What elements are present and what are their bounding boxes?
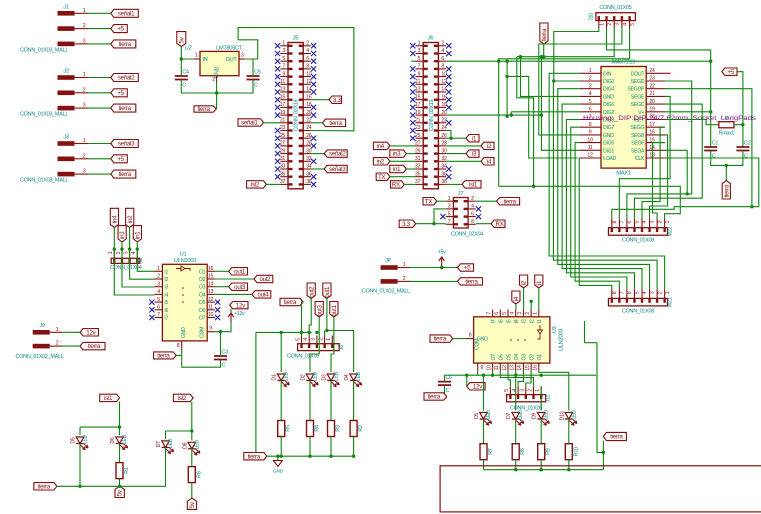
svg-text:4: 4 bbox=[589, 91, 592, 97]
wire U1 O1 to out1 bbox=[215, 270, 229, 272]
no-connect J5 pin 26 bbox=[311, 136, 316, 141]
MAX1 pin 13 lead bbox=[646, 157, 665, 159]
connector J6 pin 15 pad bbox=[424, 99, 428, 101]
wire J10 pin1 route bbox=[554, 28, 599, 81]
svg-text:8: 8 bbox=[589, 122, 592, 128]
no-connect U1 pin 12 bbox=[215, 300, 220, 305]
svg-text:JP: JP bbox=[385, 258, 391, 264]
wire stair A pin22 bbox=[612, 89, 752, 219]
U1 pin 15 lead bbox=[207, 278, 215, 280]
wire J1 pin 3 to label bbox=[88, 43, 111, 45]
connector J5 pin 14 lead bbox=[303, 91, 311, 93]
svg-text:CONN_01X05: CONN_01X05 bbox=[287, 354, 319, 360]
svg-text:isl2: isl2 bbox=[251, 182, 260, 189]
connector M22 pin 8 lead bbox=[611, 218, 613, 227]
label 12v at U3 bbox=[467, 383, 485, 391]
connector J5 pin 4 pad bbox=[299, 52, 303, 54]
ground GND symbol bbox=[273, 461, 282, 467]
MAX1 pin 21 lead bbox=[646, 95, 665, 97]
svg-text:23: 23 bbox=[415, 125, 421, 131]
connector J6 pin 34 lead bbox=[438, 168, 446, 170]
wire stair A CLK right bbox=[665, 158, 759, 207]
svg-text:C: C bbox=[222, 363, 226, 369]
connector J6 pin 25 lead bbox=[416, 137, 424, 139]
label out1 bbox=[229, 268, 248, 276]
junction DIG2 jog bbox=[510, 113, 513, 116]
no-connect J5 pin 14 bbox=[311, 89, 316, 94]
svg-text:isl1: isl1 bbox=[469, 182, 478, 189]
svg-text:5: 5 bbox=[635, 220, 641, 223]
connector J4 pin 4 pad bbox=[136, 259, 138, 263]
LED D4 bbox=[350, 374, 362, 387]
svg-text:2: 2 bbox=[306, 41, 309, 47]
wire J6 pin38 to isl1 bbox=[446, 183, 462, 185]
label +5 top right bbox=[722, 68, 737, 76]
svg-text:R4: R4 bbox=[315, 425, 321, 432]
svg-text:CONN_01X03_MALL: CONN_01X03_MALL bbox=[20, 112, 68, 118]
svg-text:4: 4 bbox=[441, 48, 444, 54]
U1 pin 2 lead bbox=[155, 278, 163, 280]
svg-text:J11: J11 bbox=[546, 395, 552, 403]
wire J6 pin24 jog to i1 net bbox=[446, 131, 451, 139]
svg-text:3: 3 bbox=[615, 23, 621, 26]
label isl1 bbox=[100, 394, 120, 402]
connector J5 pin 1 lead bbox=[280, 45, 288, 47]
connector J5 pin 34 pad bbox=[299, 168, 303, 170]
connector J8 body bbox=[298, 344, 340, 351]
junction tierra drop bbox=[542, 55, 545, 58]
connector J3 pin 2 pad bbox=[58, 157, 75, 162]
wire i4 to U3 pin4 bbox=[515, 304, 517, 310]
connector J5 pin 8 pad bbox=[299, 68, 303, 70]
wire bottom-left tierra rail bbox=[57, 485, 166, 487]
U1 pin 8 GND lead bbox=[181, 341, 183, 350]
svg-text:6: 6 bbox=[157, 305, 160, 311]
wire J8 top rail bbox=[256, 331, 312, 333]
capacitor C2 bbox=[736, 147, 749, 151]
svg-text:D3: D3 bbox=[322, 374, 328, 380]
resistor R10 bbox=[565, 444, 572, 460]
svg-text:8: 8 bbox=[612, 220, 618, 223]
LED D5 bbox=[76, 437, 88, 450]
connector J5 pin 11 pad bbox=[289, 83, 293, 85]
connector J6 pin 7 lead bbox=[416, 68, 424, 70]
connector J10 pin 3 lead bbox=[613, 21, 615, 29]
wire J6 pin30 to i3 bbox=[446, 153, 466, 155]
wire i2 to U3 pin3 bbox=[523, 288, 525, 310]
U1 pin 14 lead bbox=[207, 286, 215, 288]
svg-text:D10: D10 bbox=[559, 411, 565, 420]
wire J2 pin 2 to label bbox=[88, 92, 111, 94]
label tierra at J9 pin 2 bbox=[80, 342, 105, 350]
connector J5 pin 14 pad bbox=[299, 91, 303, 93]
no-connect J5 pin 4 bbox=[311, 51, 316, 56]
svg-text:+5v: +5v bbox=[438, 250, 446, 256]
connector J7 body bbox=[453, 198, 468, 229]
no-connect J7 pin 5 bbox=[440, 214, 445, 219]
connector M21 body bbox=[609, 298, 668, 306]
no-connect J6 pin 15 bbox=[410, 97, 415, 102]
label +5 at J2 pin 2 bbox=[111, 89, 128, 97]
connector J6 pin 32 lead bbox=[438, 160, 446, 162]
svg-text:6: 6 bbox=[441, 56, 444, 62]
wire J7 pin8 to RX bbox=[476, 223, 491, 225]
connector J10 pin 1 lead bbox=[598, 21, 600, 29]
svg-text:25: 25 bbox=[415, 133, 421, 139]
wire isl2 to J5 pin37 bbox=[266, 183, 280, 185]
connector J5 pin 9 pad bbox=[289, 75, 293, 77]
svg-text:CONN_01X02_MALL: CONN_01X02_MALL bbox=[362, 289, 410, 295]
label i2 at J6 pin28 bbox=[481, 142, 494, 150]
connector J4 pin 1 pad bbox=[113, 259, 115, 263]
connector J6 pin 35 lead bbox=[416, 176, 424, 178]
svg-text:3: 3 bbox=[448, 204, 451, 210]
wire ISET to Rmax1 bbox=[665, 120, 719, 125]
connector J10 pin 5 pad bbox=[628, 16, 630, 20]
no-connect J6 pin 19 bbox=[410, 113, 415, 118]
svg-text:4: 4 bbox=[303, 338, 309, 341]
no-connect J5 pin 13 bbox=[275, 89, 280, 94]
svg-text:señal2: señal2 bbox=[118, 75, 135, 82]
no-connect J6 pin 34 bbox=[446, 166, 451, 171]
svg-text:tierra: tierra bbox=[428, 394, 441, 401]
junction D1 branch bbox=[280, 331, 283, 334]
wire U3 pin10 into COM rail bbox=[492, 371, 494, 376]
svg-text:ULN2003: ULN2003 bbox=[174, 258, 196, 264]
connector J5 pin 27 lead bbox=[280, 145, 288, 147]
wire D8 to R6 bbox=[191, 449, 193, 467]
connector J7 pin 2 lead bbox=[468, 200, 476, 202]
resistor R7 bbox=[480, 444, 487, 460]
connector J5 pin 18 lead bbox=[303, 106, 311, 108]
svg-text:I1: I1 bbox=[164, 269, 168, 275]
no-connect J5 pin 33 bbox=[275, 166, 280, 171]
svg-text:9: 9 bbox=[282, 71, 285, 77]
junction D9col bbox=[540, 374, 543, 377]
label out4v (vertical) above J8 pin1 bbox=[330, 302, 338, 318]
label tierra at J5 pin22 bbox=[323, 119, 346, 127]
connector J6 pin 37 pad bbox=[424, 183, 428, 185]
svg-text:GND: GND bbox=[603, 94, 614, 100]
wire U3 pin12 to J11 pin5 bbox=[508, 371, 510, 387]
wire R2 to gnd rail bbox=[353, 437, 355, 457]
svg-text:4: 4 bbox=[306, 48, 309, 54]
svg-text:4: 4 bbox=[471, 204, 474, 210]
svg-text:3: 3 bbox=[650, 220, 656, 223]
MAX1 pin 24 lead bbox=[646, 72, 665, 74]
junction gnd rail at R2 bbox=[352, 455, 355, 458]
MAX1 pin 18 lead bbox=[646, 119, 665, 121]
label out2 (vertical) above J8 pin4 bbox=[307, 283, 315, 299]
junction pin14 tail bbox=[686, 192, 689, 195]
label tierra at U3 pin8 bbox=[430, 335, 453, 343]
wire MAX1 V+ to +5 column bbox=[665, 111, 711, 113]
resistor R9 bbox=[538, 444, 545, 460]
junction out1 branch bbox=[325, 329, 328, 332]
svg-text:2: 2 bbox=[116, 251, 122, 254]
svg-text:LED: LED bbox=[168, 438, 174, 448]
connector J5 pin 12 pad bbox=[299, 83, 303, 85]
wire R1 to 5v flag bbox=[119, 479, 121, 487]
svg-text:2: 2 bbox=[83, 153, 86, 159]
no-connect J6 pin 9 bbox=[410, 74, 415, 79]
svg-text:out3: out3 bbox=[316, 304, 323, 316]
wire J1 pin 1 to label bbox=[88, 12, 111, 14]
svg-text:SEGE: SEGE bbox=[631, 94, 645, 100]
wire C4 top lead bbox=[180, 59, 182, 76]
connector J6 pin 5 pad bbox=[424, 60, 428, 62]
svg-text:señal1: señal1 bbox=[241, 120, 258, 127]
connector J11 body bbox=[507, 395, 546, 402]
resistor R6 bbox=[188, 467, 195, 483]
LED D2 bbox=[306, 374, 318, 387]
svg-text:DIG1: DIG1 bbox=[603, 148, 614, 154]
svg-text:12v: 12v bbox=[236, 302, 246, 309]
connector J6 pin 35 pad bbox=[424, 176, 428, 178]
junction Rmax1 on +5 column bbox=[741, 123, 744, 126]
no-connect J6 pin 3 bbox=[410, 51, 415, 56]
no-connect J5 pin 29 bbox=[275, 151, 280, 156]
svg-text:37: 37 bbox=[415, 179, 421, 185]
no-connect J6 pin 21 bbox=[410, 120, 415, 125]
connector J6 pin 28 lead bbox=[438, 145, 446, 147]
junction J8 pin5 rail bbox=[300, 331, 303, 334]
svg-text:17: 17 bbox=[415, 102, 421, 108]
resistor R1 bbox=[116, 463, 123, 479]
U3 pin 2 lead bbox=[530, 310, 532, 317]
label tierra bottom left bbox=[34, 483, 57, 491]
connector J6 pin 9 lead bbox=[416, 76, 424, 78]
svg-text:+5: +5 bbox=[117, 26, 124, 33]
junction 3.3 branch bbox=[432, 222, 435, 225]
svg-text:O2: O2 bbox=[199, 277, 206, 283]
U3 pin 6 lead bbox=[499, 310, 501, 317]
svg-text:3: 3 bbox=[418, 48, 421, 54]
wire out3 through J8 pin3 to D2 bbox=[310, 317, 319, 372]
svg-text:16: 16 bbox=[533, 365, 539, 371]
connector J11 pin 3 lead bbox=[525, 386, 527, 394]
no-connect J5 pin 6 bbox=[311, 59, 316, 64]
no-connect J6 pin 17 bbox=[410, 105, 415, 110]
label 3.3 at J5 pin16 bbox=[329, 96, 342, 104]
connector J1 pin 3 lead bbox=[75, 43, 89, 45]
MAX1 pin 5 lead bbox=[580, 103, 601, 105]
svg-text:LED: LED bbox=[571, 410, 577, 420]
svg-text:out1: out1 bbox=[331, 304, 338, 316]
svg-text:tierra: tierra bbox=[465, 279, 478, 286]
svg-text:12: 12 bbox=[502, 365, 508, 371]
wire bundle B 1 MAX row 73.3 bbox=[549, 73, 665, 289]
wire R6 to 5v flag bbox=[191, 483, 193, 499]
svg-text:R7: R7 bbox=[488, 448, 494, 455]
connector J5 pin 9 lead bbox=[280, 76, 288, 78]
svg-text:35: 35 bbox=[415, 171, 421, 177]
svg-text:COM: COM bbox=[200, 327, 206, 338]
connector J5 pin 7 pad bbox=[289, 68, 293, 70]
svg-text:tierra: tierra bbox=[157, 353, 170, 360]
svg-text:3: 3 bbox=[589, 83, 592, 89]
svg-text:1: 1 bbox=[589, 68, 592, 74]
wire J3 pin 1 to label bbox=[88, 143, 111, 145]
svg-text:8: 8 bbox=[471, 219, 474, 225]
connector J5 pin 6 pad bbox=[299, 60, 303, 62]
connector J7 pin 4 lead bbox=[468, 208, 476, 210]
connector M22 pin 4 lead bbox=[641, 218, 643, 227]
connector J1 pin 1 lead bbox=[75, 12, 89, 14]
connector J6 pin 20 pad bbox=[434, 114, 438, 116]
svg-text:J8: J8 bbox=[339, 345, 345, 350]
svg-text:SEGF: SEGF bbox=[631, 141, 644, 147]
label tierra at center gnd rail bbox=[244, 453, 267, 461]
junction v541 bottom bbox=[540, 113, 543, 116]
connector J5 pin 20 pad bbox=[299, 114, 303, 116]
label senal3 at J5 pin34 bbox=[324, 165, 347, 173]
wire GND stub bbox=[277, 456, 279, 460]
connector M22 pin 3 lead bbox=[649, 218, 651, 227]
no-connect J5 pin 5 bbox=[275, 59, 280, 64]
U3 internal dots bbox=[510, 339, 526, 341]
svg-text:7: 7 bbox=[620, 291, 626, 294]
wire in4 to J6 pin27 bbox=[390, 145, 416, 147]
connector J11 pin 5 pad bbox=[509, 395, 511, 399]
svg-text:29: 29 bbox=[415, 148, 421, 154]
connector J5 pin 5 lead bbox=[280, 60, 288, 62]
svg-text:J4: J4 bbox=[139, 258, 145, 263]
connector J5 pin 3 pad bbox=[289, 52, 293, 54]
wire bundle B 2 MAX row 81 bbox=[553, 81, 657, 289]
no-connect J5 pin 35 bbox=[275, 174, 280, 179]
junction +5 col at V+ bbox=[709, 110, 712, 113]
svg-text:7: 7 bbox=[418, 64, 421, 70]
connector J8 pin 1 pad bbox=[331, 344, 333, 348]
svg-text:10: 10 bbox=[587, 137, 593, 143]
svg-text:tierra: tierra bbox=[88, 343, 101, 350]
wire +5 column to C1 bbox=[710, 50, 712, 147]
svg-text:1: 1 bbox=[157, 266, 160, 272]
svg-text:3: 3 bbox=[83, 38, 86, 44]
label tierra at JP pin 2 bbox=[458, 278, 483, 286]
no-connect U1 pin 6 bbox=[149, 307, 154, 312]
transistor-array U3 body bbox=[474, 317, 550, 363]
U1 pin 5 lead bbox=[155, 301, 163, 303]
connector J8 pin 1 lead bbox=[331, 336, 333, 344]
junction GND stub bbox=[276, 455, 279, 458]
connector J5 pin 29 pad bbox=[289, 152, 293, 154]
connector J2 pin 1 pad bbox=[58, 75, 75, 80]
connector M21 pin 6 pad bbox=[626, 299, 628, 303]
svg-text:23: 23 bbox=[280, 125, 286, 131]
svg-text:isl1: isl1 bbox=[104, 395, 113, 402]
wire tierra branch down bbox=[725, 165, 727, 180]
svg-text:16: 16 bbox=[208, 266, 214, 272]
junction gnd rail at R3 bbox=[329, 455, 332, 458]
connector J5 pin 33 lead bbox=[280, 168, 288, 170]
svg-text:7: 7 bbox=[620, 220, 626, 223]
wire D7 to R8 bbox=[515, 419, 517, 444]
connector M21 pin 2 pad bbox=[656, 299, 658, 303]
connector J5 pin 24 pad bbox=[299, 129, 303, 131]
svg-text:19: 19 bbox=[280, 110, 286, 116]
connector J6 pin 31 lead bbox=[416, 160, 424, 162]
U1 pin 13 lead bbox=[207, 293, 215, 295]
svg-text:I7: I7 bbox=[491, 319, 497, 323]
svg-text:15: 15 bbox=[415, 94, 421, 100]
connector J6 pin 16 pad bbox=[434, 99, 438, 101]
connector J2 pin 2 lead bbox=[75, 92, 89, 94]
wire JP pin 2 to label bbox=[410, 280, 458, 282]
connector J7 pin 1 lead bbox=[446, 200, 454, 202]
svg-text:2: 2 bbox=[83, 87, 86, 93]
svg-text:5: 5 bbox=[157, 297, 160, 303]
U3 pin 11 lead bbox=[499, 363, 501, 371]
wire +5 long line from J6 pin6 bbox=[446, 60, 711, 62]
label tierra at U1 pin8 bbox=[154, 352, 177, 360]
svg-text:COM: COM bbox=[475, 339, 481, 350]
svg-text:1: 1 bbox=[418, 41, 421, 47]
connector J6 pin 17 pad bbox=[424, 106, 428, 108]
wire tierra to U3 pin8 bbox=[453, 338, 466, 340]
junction J4 pin2 bbox=[120, 247, 123, 250]
connector J4 pin 3 lead bbox=[129, 249, 131, 258]
svg-text:tierra: tierra bbox=[329, 120, 342, 127]
connector J6 pin 18 pad bbox=[434, 106, 438, 108]
svg-text:2: 2 bbox=[157, 274, 160, 280]
svg-text:14: 14 bbox=[208, 281, 214, 287]
connector J6 pin 21 pad bbox=[424, 122, 428, 124]
wire tierra rail up branch bbox=[602, 441, 604, 470]
MAX1 pin 14 lead bbox=[646, 149, 665, 151]
svg-text:Rmax1: Rmax1 bbox=[719, 131, 735, 137]
svg-text:D1: D1 bbox=[272, 374, 278, 380]
wire C3 top lead bbox=[220, 332, 222, 356]
svg-text:C2: C2 bbox=[744, 141, 751, 147]
no-connect U1 pin 7 bbox=[149, 315, 154, 320]
wire stub end square at U3 pin2 bbox=[530, 300, 533, 303]
wire D6 to R1 bbox=[119, 444, 121, 463]
svg-text:12v: 12v bbox=[86, 329, 96, 336]
svg-text:DIG7: DIG7 bbox=[603, 125, 614, 131]
svg-text:R9: R9 bbox=[546, 448, 552, 455]
no-connect J6 pin 10 bbox=[446, 74, 451, 79]
svg-text:in3: in3 bbox=[119, 231, 126, 239]
U1 pin 11 lead bbox=[207, 309, 215, 311]
wire R10 to tierra rail bbox=[568, 460, 570, 470]
svg-text:1: 1 bbox=[83, 72, 86, 78]
connector J5 pin 32 lead bbox=[303, 160, 311, 162]
svg-text:señal3: señal3 bbox=[329, 166, 346, 173]
connector J5 pin 8 lead bbox=[303, 68, 311, 70]
U1 pin 16 lead bbox=[207, 270, 215, 272]
svg-text:2: 2 bbox=[589, 76, 592, 82]
connector J1 pin 1 pad bbox=[58, 11, 75, 16]
wire U1 O2 to out2 bbox=[215, 278, 254, 280]
junction J10 pin1 joins DIG0 column bbox=[552, 79, 555, 82]
wire stair A pin14 tail bbox=[665, 150, 687, 194]
svg-text:5: 5 bbox=[418, 56, 421, 62]
wire in2 to J6 pin31 bbox=[390, 160, 416, 162]
svg-text:27: 27 bbox=[415, 141, 421, 147]
MAX1 pin 22 lead bbox=[646, 88, 665, 90]
no-connect J6 pin 12 bbox=[446, 82, 451, 87]
svg-text:24: 24 bbox=[649, 68, 655, 74]
wire bundle B 7 MAX row 142.6 bbox=[575, 143, 619, 290]
wire senal1 to J5 pin21 bbox=[264, 122, 281, 124]
svg-text:9: 9 bbox=[589, 130, 592, 136]
label i1 (vertical) at U3 pin1 bbox=[535, 275, 543, 288]
svg-text:D2: D2 bbox=[301, 374, 307, 380]
connector M22 pin 6 pad bbox=[626, 228, 628, 232]
label +5 at JP pin 1 bbox=[458, 264, 474, 272]
